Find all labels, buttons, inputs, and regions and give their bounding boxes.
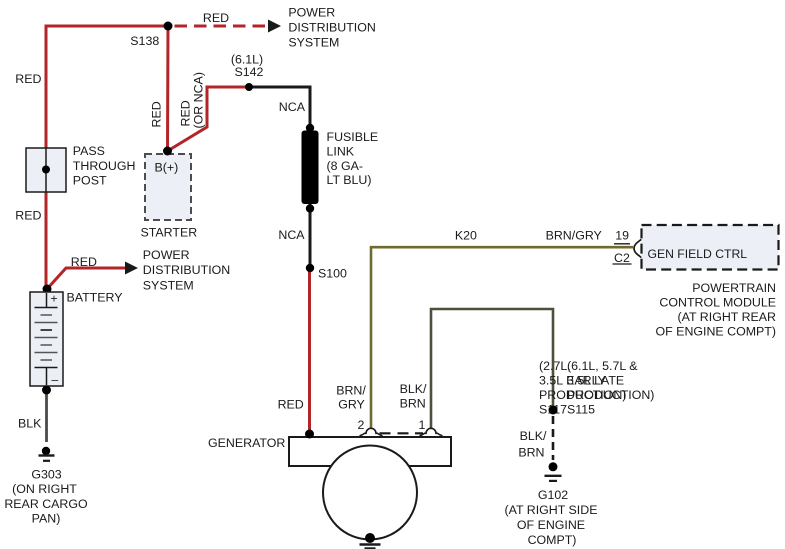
svg-text:GEN FIELD CTRL: GEN FIELD CTRL	[648, 247, 748, 261]
label pin 1	[419, 418, 426, 432]
svg-text:RED: RED	[15, 209, 41, 223]
svg-text:STARTER: STARTER	[141, 226, 198, 240]
svg-text:OF ENGINE COMPT): OF ENGINE COMPT)	[656, 325, 776, 339]
generator box	[289, 437, 451, 540]
svg-text:BRN/: BRN/	[336, 384, 366, 398]
svg-text:S115: S115	[567, 403, 595, 417]
label BRN/GRY (K20)	[546, 229, 602, 243]
svg-text:PASS: PASS	[73, 144, 105, 158]
svg-text:POWER: POWER	[288, 6, 335, 20]
node battery positive	[43, 285, 52, 294]
label BLK/ BRN (pin 1)	[400, 382, 427, 410]
pass through post box	[26, 148, 66, 192]
label G303 (ON RIGHT REAR CARGO PAN)	[4, 468, 88, 526]
label (6.1L, 5.7L &amp; 3.5L LATE PRODUCTION) S115 (overlapped block B)	[567, 359, 654, 417]
node S100	[306, 264, 314, 272]
svg-text:LINK: LINK	[327, 144, 355, 158]
wire RED S100 to generator	[308, 268, 311, 434]
label BRN/ GRY (pin 2)	[336, 384, 366, 412]
label NCA (upper)	[279, 100, 306, 114]
node generator ground	[365, 533, 375, 543]
fusible link body	[302, 124, 319, 213]
svg-text:BRN: BRN	[400, 396, 426, 410]
svg-text:POWER: POWER	[143, 248, 190, 262]
label NCA (lower)	[278, 228, 305, 242]
svg-text:CONTROL MODULE: CONTROL MODULE	[659, 296, 776, 310]
svg-text:POWERTRAIN: POWERTRAIN	[692, 281, 776, 295]
svg-text:BATTERY: BATTERY	[67, 291, 123, 305]
arrow to power distribution system (battery)	[125, 262, 138, 275]
label RED (top dashed)	[203, 11, 229, 25]
label GEN FIELD CTRL	[648, 247, 748, 261]
wire BLACK NCA fusible link to S100	[309, 204, 312, 268]
svg-text:–: –	[52, 373, 59, 387]
svg-text:1: 1	[419, 418, 426, 432]
svg-text:BLK/: BLK/	[520, 429, 547, 443]
label RED (upper left)	[15, 72, 41, 86]
label POWER DISTRIBUTION SYSTEM (top)	[288, 6, 375, 50]
svg-text:(6.1L, 5.7L &: (6.1L, 5.7L &	[567, 359, 638, 373]
svg-text:GRY: GRY	[338, 398, 365, 412]
svg-text:POST: POST	[73, 174, 107, 188]
connector pin 2 bump	[360, 428, 383, 436]
label K20	[455, 229, 477, 243]
svg-text:(OR NCA): (OR NCA)	[192, 72, 206, 128]
battery B1	[30, 292, 63, 387]
svg-text:B(+): B(+)	[155, 161, 179, 175]
wire BLACK S142 to fusible link	[249, 87, 310, 130]
label pin 19	[615, 229, 629, 243]
label BLK/ BRN (ground leg)	[518, 429, 547, 460]
wire RED pass-through post to battery	[45, 192, 48, 289]
svg-text:G303: G303	[31, 468, 61, 482]
connector pin 1 bump	[420, 428, 443, 436]
svg-text:3.5L LATE: 3.5L LATE	[567, 374, 624, 388]
label POWER DISTRIBUTION SYSTEM (battery)	[143, 248, 230, 292]
wire RED top horizontal to S138	[45, 25, 169, 28]
svg-text:G102: G102	[538, 488, 568, 502]
label PASS THROUGH POST	[73, 144, 136, 188]
node battery negative	[42, 386, 51, 395]
arrow to power distribution system (top)	[268, 20, 281, 33]
svg-text:(AT RIGHT REAR: (AT RIGHT REAR	[678, 310, 776, 324]
label RED (battery arrow)	[71, 255, 97, 269]
svg-text:BLK: BLK	[18, 417, 42, 431]
node S138	[164, 22, 173, 31]
svg-text:THROUGH: THROUGH	[73, 159, 136, 173]
label S138	[130, 34, 159, 48]
label STARTER	[141, 226, 198, 240]
svg-text:RED: RED	[71, 255, 97, 269]
wire RED S138 down to starter B(+)	[166, 26, 170, 151]
svg-text:PAN): PAN)	[32, 512, 61, 526]
svg-text:REAR CARGO: REAR CARGO	[4, 497, 88, 511]
wire K20 BRN/GRY generator pin 2 to PCM pin 19	[371, 247, 633, 428]
connector C2 half circle	[634, 239, 641, 257]
svg-text:(ON RIGHT: (ON RIGHT	[12, 482, 77, 496]
label BLK	[18, 417, 42, 431]
svg-text:BLK/: BLK/	[400, 382, 427, 396]
svg-text:NCA: NCA	[279, 100, 306, 114]
generator connector dashed edge	[380, 432, 424, 434]
ground G303	[39, 447, 55, 461]
svg-text:DISTRIBUTION: DISTRIBUTION	[143, 263, 230, 277]
wire RED left vertical from S138 to pass-through post	[45, 26, 48, 148]
node S142	[245, 83, 253, 91]
wire BLK/BRN generator pin 1 to S115	[431, 309, 553, 429]
svg-text:COMPT): COMPT)	[528, 533, 577, 547]
svg-text:GENERATOR: GENERATOR	[208, 436, 285, 450]
gen field ctrl box (PCM)	[642, 225, 779, 270]
label G102 (AT RIGHT SIDE OF ENGINE COMPT)	[505, 488, 598, 547]
svg-text:S138: S138	[130, 34, 159, 48]
label RED (generator feed)	[278, 397, 304, 411]
label RED rotated (S138 branch)	[150, 101, 164, 127]
svg-text:NCA: NCA	[278, 228, 305, 242]
wire RED dashed S138 to power distribution arrow	[175, 25, 270, 28]
label BATTERY	[67, 291, 123, 305]
svg-text:PRODUCTION): PRODUCTION)	[567, 388, 654, 402]
svg-text:RED: RED	[179, 100, 193, 126]
svg-text:OF ENGINE: OF ENGINE	[517, 518, 585, 532]
label C2 underlined	[613, 244, 632, 265]
svg-text:LT BLU): LT BLU)	[327, 173, 372, 187]
svg-text:RED: RED	[15, 72, 41, 86]
label GENERATOR	[208, 436, 285, 450]
wire RED (OR NCA) from S142 down to starter B(+)	[168, 87, 250, 151]
svg-text:SYSTEM: SYSTEM	[143, 278, 194, 292]
label RED (lower left)	[15, 209, 41, 223]
label (2.7L, 3.5L EARLY PRODUCTION) S117 (overlapped block A)	[539, 359, 626, 417]
svg-text:(2.7L,: (2.7L,	[539, 359, 571, 373]
node generator B+ terminal	[305, 430, 314, 439]
svg-text:BRN: BRN	[518, 446, 544, 460]
node S115	[549, 406, 558, 415]
wire BLK/BRN dashed S115 to ground G102	[552, 416, 555, 460]
svg-text:(AT RIGHT SIDE: (AT RIGHT SIDE	[505, 503, 598, 517]
label B(+)	[155, 161, 179, 175]
svg-text:K20: K20	[455, 229, 477, 243]
svg-text:+: +	[51, 292, 58, 306]
svg-text:C2: C2	[614, 251, 630, 265]
wire BLK battery to ground G303	[45, 390, 48, 442]
svg-text:DISTRIBUTION: DISTRIBUTION	[288, 21, 375, 35]
node B(+)	[163, 147, 172, 156]
svg-text:(8 GA-: (8 GA-	[327, 159, 364, 173]
svg-text:S100: S100	[318, 267, 347, 281]
label pin 2	[358, 418, 365, 432]
wire RED battery to power distribution arrow	[47, 268, 126, 289]
label POWERTRAIN CONTROL MODULE (AT RIGHT REAR OF ENGINE COMPT)	[656, 281, 777, 339]
svg-text:BRN/GRY: BRN/GRY	[546, 229, 602, 243]
ground G102	[545, 462, 562, 481]
svg-text:2: 2	[358, 418, 365, 432]
svg-text:SYSTEM: SYSTEM	[288, 35, 339, 49]
label RED (OR NCA) rotated	[179, 72, 206, 128]
svg-text:S142: S142	[235, 65, 264, 79]
label (6.1L) S142	[231, 53, 264, 80]
starter box	[145, 154, 191, 220]
svg-text:FUSIBLE: FUSIBLE	[327, 130, 379, 144]
label S100	[318, 267, 347, 281]
ground generator case	[360, 545, 381, 549]
svg-text:RED: RED	[203, 11, 229, 25]
svg-text:19: 19	[615, 229, 629, 243]
svg-text:RED: RED	[150, 101, 164, 127]
label FUSIBLE LINK (8 GA- LT BLU)	[327, 130, 379, 187]
svg-text:RED: RED	[278, 397, 304, 411]
